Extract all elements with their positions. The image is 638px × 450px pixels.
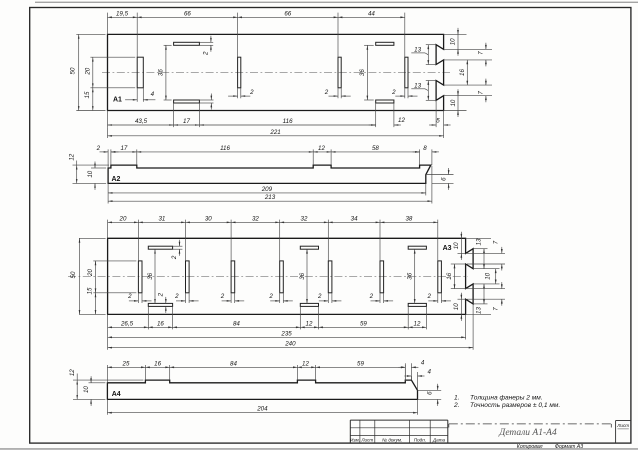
- A1 dimension 2 (slot S4 width): [404, 88, 406, 99]
- A1 dimension 5: [429, 124, 451, 126]
- part A3 outline with dovetail tenons: [108, 238, 474, 314]
- part A3 slot V7: [438, 261, 442, 293]
- A2 dimension 209: [108, 192, 426, 194]
- A4 dimension 84: [170, 366, 298, 368]
- A4 dimension 204: [107, 412, 417, 414]
- A1 dimension 7 (bottom): [485, 79, 487, 103]
- A1 dimension 20: [92, 57, 94, 88]
- A3 dimension 34 #6: [328, 222, 380, 224]
- svg-text:7: 7: [478, 91, 485, 95]
- A1 dimension 7 (top): [485, 43, 487, 67]
- svg-text:32: 32: [252, 215, 259, 222]
- part A3 slot V5: [328, 261, 332, 293]
- A2 dimension 12 (height): [76, 165, 78, 183]
- A4 dimension 16: [145, 366, 169, 368]
- A3 dimension 12 (slot3): [408, 326, 426, 328]
- A3 dim 36 #3: [414, 249, 416, 303]
- A1 dimension 43,5: [108, 124, 174, 126]
- svg-text:2: 2: [317, 293, 322, 300]
- A1 dimension 50: [78, 34, 80, 110]
- A4 dimension 12 (height): [76, 380, 78, 399]
- svg-text:10: 10: [484, 272, 491, 279]
- part A3 bottom slot B2: [300, 303, 318, 306]
- A3 overall 240 extension lines: [107, 340, 109, 350]
- svg-text:A1: A1: [113, 97, 122, 104]
- A1 dimension 66 (right): [238, 16, 338, 18]
- A3 right-end extension lines: [466, 237, 491, 239]
- A3 dimension 2 (slot V6 width): [379, 293, 381, 303]
- part A3 top slot T2: [300, 246, 318, 249]
- svg-text:1.: 1.: [454, 395, 460, 402]
- A1 dimension 221: [108, 135, 444, 137]
- svg-text:10: 10: [450, 99, 457, 106]
- A1 dimension 12: [369, 124, 401, 126]
- svg-text:221: 221: [269, 129, 280, 136]
- svg-text:12: 12: [318, 145, 325, 152]
- svg-text:36: 36: [407, 272, 414, 279]
- svg-text:4: 4: [427, 369, 431, 376]
- part A1 slot S1 (4 wide): [137, 57, 143, 88]
- part A3 slot V4: [280, 261, 284, 293]
- A3 dimension 32 #5: [280, 222, 329, 224]
- A3 dim 36 #1: [154, 249, 156, 303]
- svg-text:2: 2: [268, 293, 273, 300]
- svg-text:Копировал: Копировал: [517, 444, 543, 450]
- A3 dimension 2 (slot V7 width): [437, 293, 439, 303]
- part A1 bottom slot B2: [376, 100, 394, 103]
- A3 dimension 10 (heads): [495, 269, 497, 284]
- svg-text:116: 116: [220, 145, 230, 152]
- A3 dimension 2 (slot V2 width): [185, 293, 187, 303]
- svg-text:50: 50: [70, 67, 77, 74]
- A2 dimension 2: [100, 151, 109, 153]
- A3 dimension 2 (slot V5 width): [327, 293, 329, 303]
- svg-text:Дата: Дата: [432, 438, 446, 443]
- A1 dimension 13 (bottom socket): [427, 81, 429, 101]
- A1 dimension 2 (slot S3 width): [337, 88, 339, 99]
- part A1 slot S3 (2 wide): [338, 57, 341, 88]
- part A1 bottom slot B1: [174, 100, 200, 103]
- svg-text:10: 10: [450, 38, 457, 45]
- part A3 bottom slot B3: [408, 303, 426, 306]
- A1 right-end extension lines: [444, 33, 467, 35]
- svg-text:44: 44: [368, 10, 375, 17]
- A4 dimension 6: [418, 389, 442, 391]
- svg-text:2.: 2.: [453, 402, 460, 409]
- part A3 slot V2: [186, 261, 190, 293]
- svg-text:2: 2: [171, 255, 178, 260]
- svg-text:34: 34: [351, 215, 358, 222]
- A3 dimension 30 #3: [186, 222, 232, 224]
- A4 dim 6 line: [437, 384, 439, 406]
- svg-text:Толщина фанеры 2 мм.: Толщина фанеры 2 мм.: [470, 395, 543, 402]
- part A1 slot S2 (2 wide): [238, 57, 241, 88]
- svg-text:204: 204: [256, 406, 268, 413]
- A3 dimension 2 (slot V4 width): [279, 293, 281, 303]
- A3 overall 235 extension lines: [107, 329, 109, 339]
- svg-text:Точность размеров ± 0,1 мм.: Точность размеров ± 0,1 мм.: [470, 402, 560, 409]
- svg-text:32: 32: [301, 215, 308, 222]
- svg-text:13: 13: [476, 307, 483, 314]
- A1 dimension 36 (left slot pair): [164, 44, 172, 46]
- A1 top dimension extension lines: [107, 13, 109, 35]
- A4 dimension 12: [297, 366, 315, 368]
- svg-text:5: 5: [436, 118, 440, 125]
- svg-text:8: 8: [423, 145, 427, 152]
- svg-text:59: 59: [357, 360, 364, 367]
- A3 dimension 2 (slot V3 width): [230, 293, 232, 303]
- sheet scan edge artifacts: [0, 448, 638, 450]
- svg-text:36: 36: [359, 69, 366, 76]
- svg-text:10: 10: [83, 386, 90, 393]
- svg-text:7: 7: [493, 307, 500, 311]
- A3 dimension 12 (slot2): [300, 326, 318, 328]
- svg-text:12: 12: [414, 320, 421, 327]
- A3 dimension 13 (top): [483, 249, 485, 269]
- part A2 outline: [108, 165, 431, 183]
- svg-text:2: 2: [249, 89, 254, 96]
- svg-text:84: 84: [230, 360, 237, 367]
- A3 dimension 16 (necks): [454, 264, 456, 289]
- svg-text:213: 213: [264, 194, 276, 201]
- svg-text:16: 16: [154, 360, 161, 367]
- svg-text:20: 20: [119, 215, 127, 222]
- svg-text:36: 36: [299, 272, 306, 279]
- svg-text:17: 17: [183, 118, 190, 125]
- A2 dimension 116: [137, 151, 313, 153]
- A3 dimension 38 #7: [380, 222, 438, 224]
- svg-text:Изм.: Изм.: [350, 438, 360, 443]
- A1 dimension 44: [338, 16, 405, 18]
- A1 dimension 36 (right slot pair): [364, 44, 374, 46]
- title field dash-dot border: [449, 423, 612, 425]
- svg-text:50: 50: [70, 271, 77, 278]
- svg-text:10: 10: [87, 170, 94, 177]
- A3 top dimension extension lines: [107, 220, 109, 239]
- A1 dimension 2 (top slot T1 thickness): [199, 41, 213, 43]
- A1 dimension 2 (bottom slot B1 thickness): [199, 99, 213, 101]
- svg-text:15: 15: [87, 287, 94, 294]
- A2 dimension 10 (height): [94, 162, 96, 190]
- svg-text:Детали А1-А4: Детали А1-А4: [498, 428, 557, 438]
- svg-text:16: 16: [157, 320, 164, 327]
- part A1 top slot T2 (12 long): [376, 42, 394, 45]
- svg-text:10: 10: [453, 242, 460, 249]
- A2 dimension 12: [313, 151, 331, 153]
- A2 dimension 17: [111, 151, 137, 153]
- svg-text:2: 2: [174, 293, 179, 300]
- svg-text:30: 30: [205, 215, 212, 222]
- A4 left extension lines: [73, 379, 143, 381]
- svg-text:Лист: Лист: [616, 423, 629, 428]
- part A3 slot V6: [380, 261, 384, 293]
- A3 dimension 20: [95, 261, 97, 293]
- svg-text:4: 4: [421, 359, 425, 366]
- A3 dimension 2 (slot V1 width): [137, 293, 139, 303]
- svg-text:209: 209: [261, 186, 273, 193]
- A1 overall length extension lines: [107, 127, 109, 138]
- svg-text:A2: A2: [112, 176, 121, 183]
- A3 dimension 59: [319, 326, 409, 328]
- svg-text:6: 6: [427, 391, 434, 395]
- svg-text:Формат А3: Формат А3: [555, 444, 583, 450]
- svg-text:7: 7: [478, 51, 485, 55]
- svg-text:№ докум.: № докум.: [382, 438, 402, 443]
- svg-text:A4: A4: [112, 391, 121, 398]
- A3 bottom dimension extension lines: [107, 314, 109, 329]
- svg-text:12: 12: [68, 153, 75, 160]
- part A3 top slot T3: [408, 246, 426, 249]
- A3 dimension 50: [79, 238, 81, 314]
- svg-text:2: 2: [96, 145, 101, 152]
- A3 dimension 26,5: [108, 326, 149, 328]
- A1 dim line 36 left: [165, 45, 167, 100]
- part A1 top slot T1 (17 long): [174, 42, 200, 45]
- A1 dimension 13 (top socket): [427, 45, 429, 65]
- part A3 bottom slot B1: [148, 303, 172, 306]
- svg-text:25: 25: [122, 360, 130, 367]
- svg-text:84: 84: [233, 320, 240, 327]
- part A1 centerline: [102, 72, 450, 74]
- A4 bottom extension lines: [106, 399, 108, 414]
- svg-text:13: 13: [476, 238, 483, 245]
- A1 bottom dimension extension lines: [107, 111, 109, 128]
- A3 dim 36 #2: [306, 249, 308, 303]
- A3 dimension 20 #1: [108, 222, 139, 224]
- svg-text:12: 12: [306, 320, 313, 327]
- svg-text:2: 2: [369, 293, 374, 300]
- A1 dim line 36 right: [367, 45, 369, 100]
- A3 dimension 235: [108, 336, 466, 338]
- svg-text:2: 2: [324, 89, 329, 96]
- svg-text:Лист: Лист: [360, 438, 373, 443]
- svg-text:43,5: 43,5: [135, 118, 148, 125]
- A3 dimension 31 #2: [138, 222, 185, 224]
- A3 dimension 16 (slot): [148, 326, 172, 328]
- svg-text:66: 66: [284, 10, 291, 17]
- svg-text:19,5: 19,5: [116, 10, 129, 17]
- svg-text:12: 12: [398, 117, 405, 124]
- svg-text:58: 58: [372, 145, 379, 152]
- A4 dimension 4 (step): [404, 363, 406, 381]
- svg-text:12: 12: [69, 369, 76, 376]
- A1 dimension 15: [92, 88, 94, 111]
- svg-text:2: 2: [220, 293, 225, 300]
- A4 dimension 25: [107, 366, 145, 368]
- A3 dimension 32 #4: [231, 222, 280, 224]
- A2 right-end extension lines: [426, 174, 454, 176]
- svg-text:16: 16: [459, 69, 466, 76]
- A4 dimension 10 (height): [90, 376, 92, 406]
- A1 dimension 10 (top): [457, 28, 459, 56]
- part A4 outline: [107, 380, 417, 399]
- svg-text:10: 10: [453, 303, 460, 310]
- svg-text:20: 20: [87, 269, 94, 277]
- svg-text:20: 20: [84, 67, 91, 75]
- A2 dimension 213: [108, 200, 432, 202]
- svg-text:26,5: 26,5: [120, 320, 134, 327]
- A4 dimension 4 (bevel): [410, 376, 412, 380]
- part A3 slot V3: [231, 261, 235, 293]
- part A1 slot S4 (2 wide): [405, 57, 408, 88]
- A1 dimension 19,5: [108, 16, 138, 18]
- svg-text:116: 116: [283, 118, 293, 125]
- A2 bottom extension lines: [425, 183, 427, 195]
- svg-text:2: 2: [202, 51, 209, 56]
- A4 dimension 59: [316, 366, 406, 368]
- A2 top dimension extension lines: [107, 149, 109, 168]
- svg-text:A3: A3: [443, 245, 452, 252]
- svg-text:36: 36: [158, 69, 165, 76]
- svg-text:6: 6: [440, 177, 447, 181]
- A1 dimension 4 (slot S1 width): [136, 88, 138, 102]
- A3 dimension 2 (bottom slot B1 thickness): [165, 297, 167, 313]
- sheet number box: [615, 421, 617, 444]
- A3 dimension 10 (top): [461, 232, 463, 260]
- svg-text:17: 17: [120, 145, 127, 152]
- A3 dimension 10 (bottom): [461, 293, 463, 321]
- A3 dimension 7 (bottom): [501, 282, 503, 306]
- svg-text:12: 12: [302, 360, 309, 367]
- svg-text:15: 15: [84, 91, 91, 98]
- A1 dimension 116: [199, 124, 375, 126]
- part A1 outline with dovetail sockets: [108, 34, 444, 110]
- A2 left extension lines: [73, 164, 110, 166]
- A2 dimension 8: [413, 151, 439, 153]
- title block table grid: [350, 420, 448, 443]
- svg-text:16: 16: [446, 272, 453, 279]
- svg-text:240: 240: [284, 341, 296, 348]
- A1 dimension 66 (left): [137, 16, 237, 18]
- svg-text:31: 31: [158, 215, 165, 222]
- svg-text:36: 36: [147, 272, 154, 279]
- svg-text:4: 4: [151, 91, 155, 98]
- part A3 top slot T1: [148, 246, 172, 249]
- A1 left extension lines: [76, 33, 105, 35]
- part A3 slot V1: [138, 261, 142, 293]
- svg-text:2: 2: [391, 89, 396, 96]
- svg-text:59: 59: [360, 320, 367, 327]
- part A3 centerline: [68, 275, 468, 277]
- A3 dimension 15: [95, 293, 97, 315]
- A2 dimension 58: [331, 151, 420, 153]
- svg-text:235: 235: [280, 330, 292, 337]
- svg-text:66: 66: [184, 10, 191, 17]
- A3 dimension 7 (top): [501, 247, 503, 271]
- A3 left extension lines: [79, 237, 106, 239]
- A1 dimension 17: [174, 124, 200, 126]
- A1 dimension 2 (slot S2 width): [237, 88, 239, 99]
- A3 dimension 13 (bottom): [483, 284, 485, 304]
- A3 dimension 240: [108, 347, 474, 349]
- A1 dimension 10 (bottom): [457, 89, 459, 117]
- A4 top dimension extension lines: [106, 365, 108, 383]
- A2 dimension 6: [448, 168, 450, 190]
- A1 dimension 16: [466, 60, 468, 85]
- svg-text:2: 2: [157, 292, 164, 297]
- A3 dimension 84: [173, 326, 301, 328]
- svg-text:7: 7: [493, 240, 500, 244]
- A3 dimension 2 (top slot T1 thickness): [173, 245, 183, 247]
- svg-text:Подп.: Подп.: [414, 438, 426, 443]
- svg-text:2: 2: [426, 293, 431, 300]
- svg-text:2: 2: [127, 293, 132, 300]
- svg-text:38: 38: [405, 215, 412, 222]
